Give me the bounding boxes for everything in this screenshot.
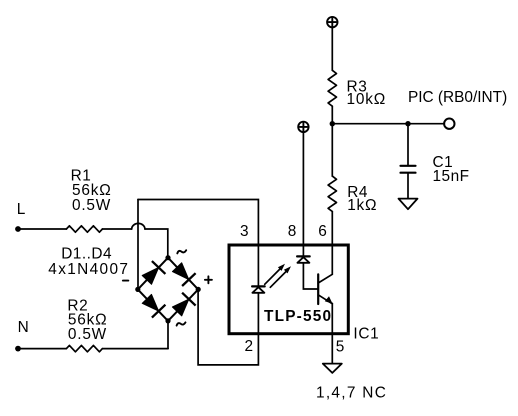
svg-text:10kΩ: 10kΩ <box>347 91 387 108</box>
svg-text:4x1N4007: 4x1N4007 <box>48 261 129 278</box>
svg-text:IC1: IC1 <box>353 325 379 342</box>
svg-text:N: N <box>18 319 29 336</box>
svg-text:TLP-550: TLP-550 <box>264 308 332 325</box>
svg-text:5: 5 <box>336 338 345 355</box>
svg-text:3: 3 <box>240 223 249 240</box>
svg-text:15nF: 15nF <box>433 168 470 185</box>
svg-text:PIC (RB0/INT): PIC (RB0/INT) <box>408 89 507 106</box>
svg-text:0.5W: 0.5W <box>72 197 111 214</box>
svg-text:1kΩ: 1kΩ <box>347 197 377 214</box>
svg-text:6: 6 <box>318 223 327 240</box>
svg-text:1,4,7 NC: 1,4,7 NC <box>316 385 387 402</box>
svg-text:2: 2 <box>245 338 254 355</box>
svg-text:L: L <box>17 201 26 218</box>
svg-text:8: 8 <box>288 223 297 240</box>
svg-text:0.5W: 0.5W <box>68 326 107 343</box>
